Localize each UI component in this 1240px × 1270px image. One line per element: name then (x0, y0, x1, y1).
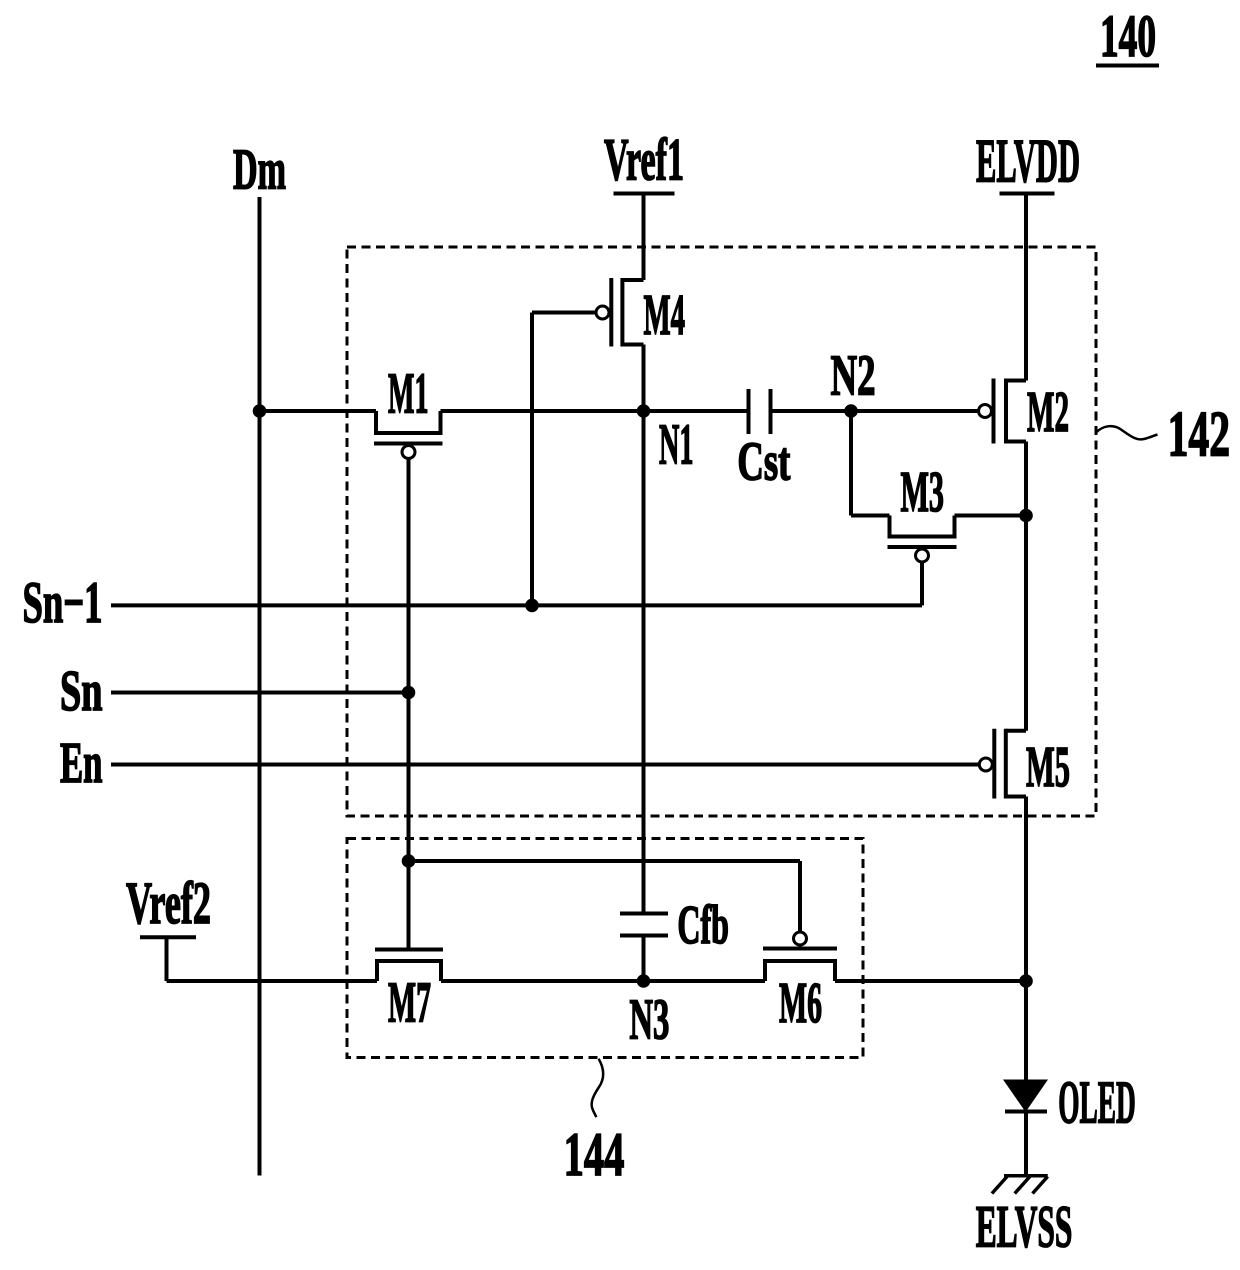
ELVDD supply T-bar (1000, 192, 1055, 196)
node Sn-1 label (23, 569, 103, 635)
node Vref1 label (604, 127, 684, 193)
wire Sn-1 scan line (111, 603, 922, 607)
node N2 junction dot (844, 404, 858, 418)
svg-text:M4: M4 (644, 282, 686, 347)
underline of 140 (1096, 64, 1159, 68)
wire Vref1 to M4 source (642, 194, 646, 281)
dashed box 142 (347, 247, 1096, 816)
node Vref2 label (126, 870, 211, 936)
node N1 junction dot (637, 404, 651, 418)
Vref1 supply T-bar (614, 192, 675, 196)
Vref2 supply T-bar (140, 935, 196, 939)
wire M4 drain down to N1 and on to Cfb (642, 345, 646, 914)
transistor M3 (888, 459, 957, 562)
node N1 label (659, 412, 694, 477)
svg-text:En: En (60, 730, 103, 795)
ground ELVSS (992, 1176, 1048, 1194)
wire Sn scan line (111, 691, 409, 695)
svg-text:Vref1: Vref1 (604, 127, 684, 193)
transistor M1 (374, 361, 443, 459)
wire M5 drain down to OLED (1024, 797, 1028, 1080)
junction dot Sn/M1 gate (402, 686, 416, 700)
wire M6 gate stem (798, 861, 802, 932)
svg-text:M6: M6 (779, 970, 822, 1035)
capacitor Cst (737, 389, 790, 492)
junction dot Sn-1/M4 gate (525, 599, 539, 613)
node En label (60, 730, 103, 795)
svg-text:M2: M2 (1027, 379, 1069, 444)
wire M4 gate horizontal (532, 311, 596, 315)
svg-text:M7: M7 (388, 970, 431, 1035)
wire M3 gate stem to Sn-1 (920, 562, 924, 605)
wire gate link row M7 to M6 (409, 859, 801, 863)
transistor M6 (763, 932, 837, 1035)
wire M7 drain to N3 (441, 979, 765, 983)
node ELVDD label (976, 127, 1080, 195)
wire Vref2 to M7 source (167, 979, 378, 983)
label 140 (1100, 3, 1156, 69)
node Sn label (60, 658, 103, 723)
wire M3 drain to ELVDD rail (955, 514, 1027, 518)
transistor M4 (596, 278, 685, 347)
svg-text:Cfb: Cfb (677, 894, 729, 955)
transistor M7 (375, 950, 443, 1035)
wire M1 drain to Cst left plate (441, 409, 749, 413)
squiggle lead to label 142 (1096, 426, 1158, 439)
svg-text:Sn: Sn (60, 658, 103, 723)
diode OLED (1003, 1070, 1136, 1137)
wire M1 gate stem down to M7 gate (407, 459, 411, 950)
junction dot Dm-row (253, 404, 267, 418)
junction dot OLED rail (1019, 974, 1033, 988)
svg-text:140: 140 (1100, 3, 1156, 69)
svg-text:N3: N3 (629, 987, 669, 1052)
svg-text:N1: N1 (659, 412, 694, 477)
node ELVSS label (976, 1193, 1073, 1259)
svg-text:ELVDD: ELVDD (976, 127, 1080, 195)
wire main row Dm to M1 (260, 409, 377, 413)
wire M2 drain down to M5 (1024, 442, 1028, 731)
wire Vref2 stem down (165, 937, 169, 981)
label 144 (564, 1121, 625, 1189)
wire M6 drain to OLED rail (835, 979, 1026, 983)
label 142 (1168, 399, 1230, 471)
junction dot gate link (402, 854, 416, 868)
wire M4 gate vertical down to Sn-1 (530, 313, 534, 606)
wire N2 vertical to M3 left (851, 514, 890, 518)
wire En emission line (111, 763, 979, 767)
transistor M5 (979, 729, 1070, 799)
node Dm label (233, 136, 286, 201)
svg-text:Sn−1: Sn−1 (23, 569, 103, 635)
wire Cst right plate to M2 gate (771, 409, 979, 413)
wire Dm data line vertical (258, 197, 262, 1176)
wire Cfb bottom to N3 (642, 936, 646, 982)
svg-text:M5: M5 (1026, 734, 1070, 799)
svg-text:M3: M3 (901, 459, 945, 524)
svg-text:142: 142 (1168, 399, 1230, 471)
svg-text:Dm: Dm (233, 136, 286, 201)
svg-text:144: 144 (564, 1121, 625, 1189)
dashed box 144 (347, 839, 863, 1058)
svg-text:ELVSS: ELVSS (976, 1193, 1073, 1259)
wire ELVDD to M2 source (1024, 194, 1028, 381)
wire OLED cathode down (1024, 1112, 1028, 1176)
wire N2 down to M3 source (849, 411, 853, 516)
capacitor Cfb (620, 894, 729, 955)
svg-text:M1: M1 (388, 361, 429, 426)
node N3 junction dot (637, 974, 651, 988)
svg-text:N2: N2 (831, 343, 876, 408)
node N3 label (629, 987, 669, 1052)
svg-text:OLED: OLED (1058, 1070, 1136, 1137)
svg-text:Vref2: Vref2 (126, 870, 211, 936)
node N2 label (831, 343, 876, 408)
junction dot M3-M2 (1019, 509, 1033, 523)
svg-text:Cst: Cst (737, 431, 790, 492)
squiggle lead to label 144 (592, 1059, 603, 1118)
transistor M2 (979, 379, 1070, 445)
